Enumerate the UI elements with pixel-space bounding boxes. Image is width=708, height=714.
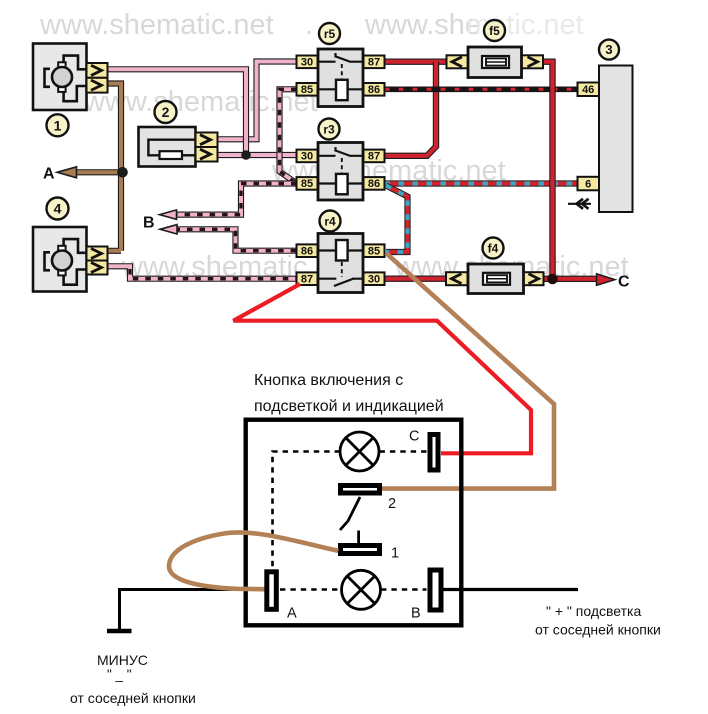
wire red r4-87 to button contact C	[233, 284, 531, 453]
label circle r5	[319, 23, 340, 44]
svg-text:2: 2	[162, 104, 170, 120]
svg-text:46: 46	[582, 84, 594, 96]
connector X2 of component 2	[196, 133, 218, 162]
wire brown r4-85 to button contact 2	[382, 253, 554, 489]
svg-text:30: 30	[301, 151, 313, 163]
svg-text:A: A	[43, 166, 55, 183]
wire brown loop contact 1 to contact A	[169, 532, 338, 589]
wire black contact A to minus	[120, 590, 265, 630]
wire pink-black striped r5-85 to r3-85	[280, 89, 298, 183]
wire black-red striped r5-86 to pin 46	[385, 87, 578, 93]
motor M1 box	[33, 44, 87, 111]
relay r4 pin 87	[297, 272, 318, 285]
component 3 box	[599, 66, 633, 213]
relay r3 pin 85	[297, 177, 318, 190]
svg-text:30: 30	[368, 273, 380, 285]
relay r5 pin 30	[297, 56, 318, 69]
switch lever	[340, 497, 360, 530]
fuse f5 body	[447, 47, 544, 78]
label circle 1	[47, 114, 69, 136]
label circle f5	[484, 20, 505, 41]
svg-text:matic.net: matic.net	[466, 9, 584, 41]
wire red r5-87 to fuse f5	[385, 59, 447, 65]
dashed wire top lamp to contact C	[380, 450, 428, 453]
component 2 box	[139, 127, 196, 167]
wire red f4 to arrow C	[543, 276, 599, 282]
svg-text:86: 86	[368, 84, 380, 96]
svg-text:C: C	[409, 429, 419, 445]
wire red-blue striped branch to r4-85	[386, 186, 408, 253]
svg-text:r4: r4	[324, 215, 336, 229]
relay r5 pin 86	[364, 83, 385, 96]
wire red-blue striped r3-86 to pin 6	[385, 180, 578, 186]
pin 46 of component 3	[578, 83, 600, 97]
connector X4 of motor M4	[87, 247, 108, 275]
svg-text:2: 2	[388, 496, 396, 512]
dashed wire bottom lamp to contact B	[381, 588, 427, 591]
relay r4 pin 30	[364, 272, 385, 285]
svg-text:www.shematic.net: www.shematic.net	[39, 9, 274, 41]
svg-text:" + " подсветка: " + " подсветка	[546, 603, 641, 619]
svg-text:подсветкой и индикацией: подсветкой и индикацией	[254, 398, 444, 415]
relay r3 pin 86	[364, 177, 385, 190]
fuse f4 body	[446, 264, 544, 294]
svg-text:f5: f5	[489, 24, 500, 38]
svg-text:C: C	[618, 274, 630, 291]
svg-text:87: 87	[368, 151, 380, 163]
button box	[246, 420, 462, 626]
wire pink comp4 stub	[107, 266, 130, 272]
svg-text:A: A	[287, 606, 297, 622]
arrowhead B lower	[160, 225, 177, 234]
relay r4 pin 86	[297, 244, 318, 257]
wire brown comp1 to comp4 vertical with arrow A tap	[107, 84, 121, 251]
contact 1 bar	[341, 546, 380, 554]
svg-text:4: 4	[54, 201, 62, 217]
relay r3 pin 87	[364, 150, 385, 163]
svg-text:30: 30	[301, 57, 313, 69]
contact 2 bar	[341, 486, 380, 494]
continuation arrow symbol below pin 6	[568, 199, 591, 209]
relay r3 box	[318, 143, 363, 201]
pin 6 of component 3	[578, 177, 600, 191]
svg-text:1: 1	[391, 546, 399, 562]
junction node C	[547, 274, 558, 285]
svg-text:86: 86	[301, 245, 313, 257]
contact 1 fixed tick	[357, 531, 360, 545]
label circle r4	[320, 211, 341, 232]
junction node r3-30	[241, 150, 251, 160]
label circle f4	[483, 238, 504, 259]
label circle 3	[599, 40, 619, 60]
svg-text:1: 1	[54, 117, 62, 133]
contact C bar	[430, 435, 438, 471]
arrowhead C	[597, 274, 616, 286]
relay r4 pin 85	[364, 244, 385, 257]
svg-text:87: 87	[301, 273, 313, 285]
svg-text:МИНУС: МИНУС	[97, 652, 148, 668]
relay r4 box	[318, 234, 363, 293]
dashed wire top lamp left and down to contact A	[273, 452, 341, 568]
svg-text:B: B	[143, 215, 155, 232]
lamp backlight bottom	[342, 570, 381, 609]
wire black contact B to plus backlight	[444, 588, 579, 591]
svg-text:www.she: www.she	[364, 9, 481, 41]
svg-text:6: 6	[585, 178, 591, 190]
relay r5 box	[318, 49, 363, 107]
svg-text:3: 3	[605, 42, 612, 57]
arrowhead B upper	[160, 210, 177, 219]
relay r5 pin 85	[297, 83, 318, 96]
wire pink-black striped arrow B lower to r4-86	[175, 229, 297, 250]
wire pink comp2 top to r5-30	[218, 62, 297, 140]
wire pink comp1 to r3-30 junction	[108, 69, 247, 155]
svg-text:86: 86	[368, 178, 380, 190]
svg-text:от соседней кнопки: от соседней кнопки	[70, 690, 196, 706]
svg-text:от соседней кнопки: от соседней кнопки	[535, 622, 661, 638]
junction node A	[117, 167, 128, 178]
svg-text:85: 85	[301, 84, 313, 96]
label circle r3	[319, 119, 340, 140]
svg-text:B: B	[411, 606, 421, 622]
label circle 2	[155, 101, 177, 123]
svg-text:" _ ": " _ "	[107, 667, 132, 682]
relay r3 pin 30	[297, 150, 318, 163]
svg-text:r3: r3	[323, 123, 335, 137]
arrowhead A	[57, 167, 77, 178]
ground terminal minus	[107, 629, 132, 633]
svg-text:f4: f4	[488, 242, 499, 256]
svg-text:Кнопка включения с: Кнопка включения с	[254, 372, 403, 389]
lamp indicator top	[340, 432, 379, 471]
wire pink comp2 bottom to r3-30	[218, 152, 297, 158]
svg-text:.: .	[305, 9, 313, 41]
svg-text:87: 87	[368, 57, 380, 69]
wire pink-black striped comp4 to r4-87	[130, 269, 297, 279]
wire brown to arrow A	[76, 169, 123, 175]
contact A bar	[267, 572, 277, 610]
dashed wire contact A to bottom lamp	[280, 588, 341, 591]
wire pink-black striped r3-85 to arrow B upper	[174, 184, 297, 215]
svg-text:85: 85	[301, 178, 313, 190]
contact B bar	[430, 570, 441, 610]
connector X1 of motor M1	[87, 63, 108, 93]
svg-text:85: 85	[368, 245, 380, 257]
motor M4 box	[33, 227, 87, 292]
wire red f5 right to f4 junction	[542, 62, 553, 279]
label circle 4	[47, 198, 69, 220]
wire red r4-30 to fuse f4	[385, 276, 447, 282]
wire red riser r3-87 to r5 line	[385, 62, 437, 156]
svg-text:r5: r5	[324, 27, 336, 41]
relay r5 pin 87	[364, 56, 385, 69]
